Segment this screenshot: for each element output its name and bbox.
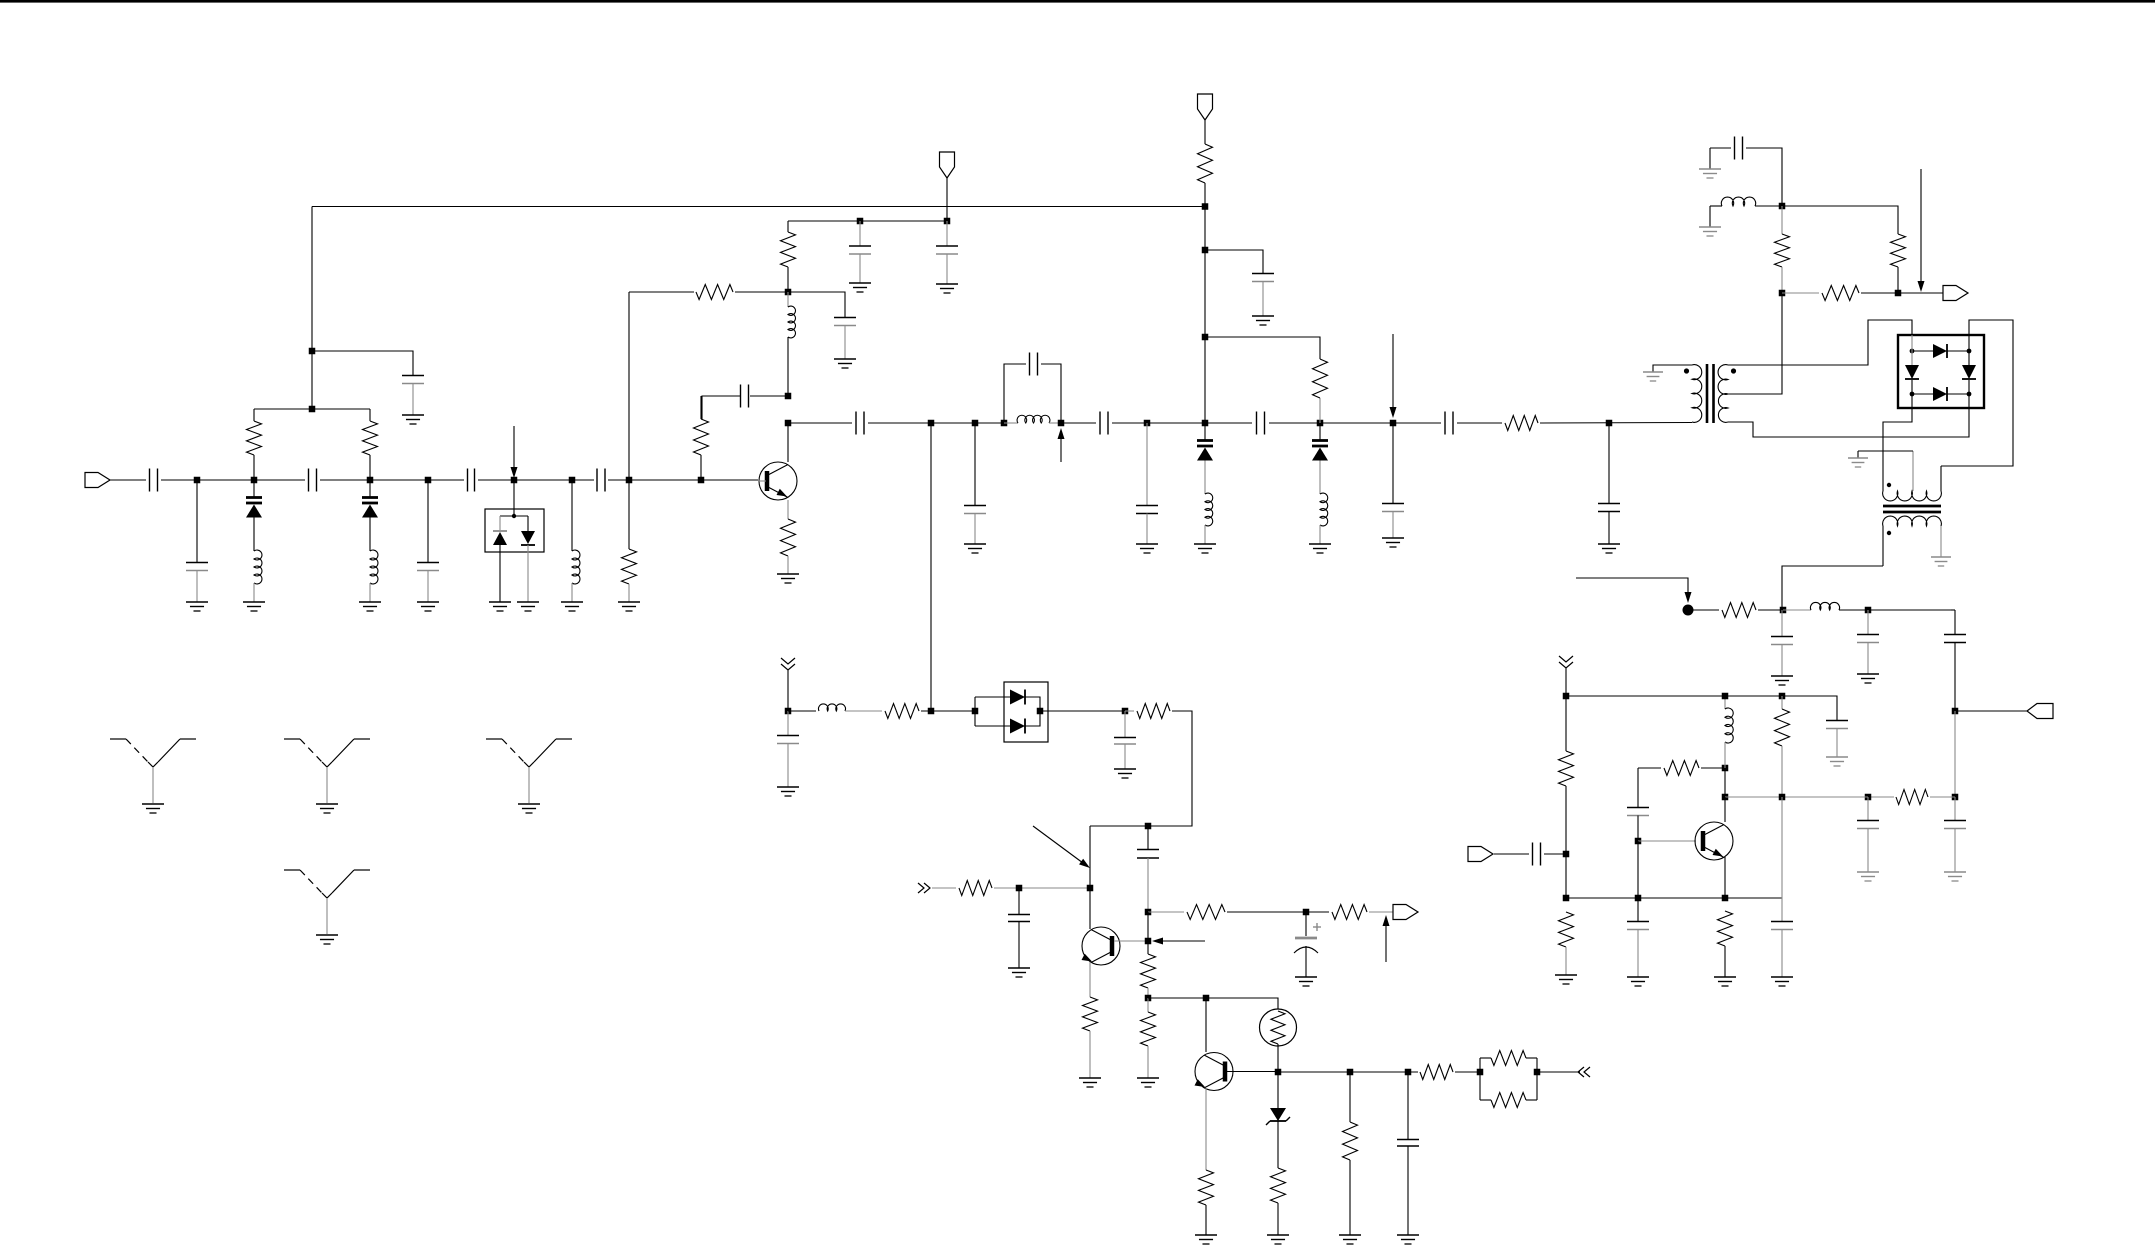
wire [921,710,975,712]
wire [946,178,948,221]
resistor R16 [1559,696,1574,854]
ground [1295,977,1317,986]
wire [1693,609,1719,611]
flag AF out [1393,905,1418,920]
node [1635,838,1642,845]
ground [186,602,208,611]
node [1779,693,1786,700]
terminal big dot [1683,605,1694,616]
diode pair D3 box [485,509,544,552]
ground [359,602,381,611]
node [1122,708,1129,715]
resistor R8 riser [1205,337,1328,423]
thermistor RT1 [1260,1009,1297,1046]
wire [513,480,515,509]
bridge diode left [1905,351,1919,394]
wire corner [1951,609,1955,611]
ground [1944,872,1966,881]
resistor R22 [1137,704,1170,719]
node [1347,1069,1354,1076]
node [1563,851,1570,858]
node [251,477,258,484]
wire [994,887,1090,889]
wire rail2 [1566,897,1782,899]
wire bridge TR lead [1968,335,1970,351]
node [1202,203,1209,210]
node [1563,693,1570,700]
wire bridge TL lead [1911,335,1913,351]
bridge node BL [1910,392,1915,397]
ground [1857,872,1879,881]
transformer T2 core [1883,506,1941,512]
wire [735,291,788,293]
wire long top rail [312,206,1205,208]
wire [1782,206,1898,234]
ground [1079,1078,1101,1087]
resistor R23 [959,881,992,896]
wire secondary bottom [1728,408,1969,437]
transistor Q4 [1695,822,1733,860]
wire [608,479,758,481]
capacitor C4 [597,469,605,492]
wire [1709,206,1711,227]
wire base [1114,940,1148,942]
capacitor C26 to ground [1857,797,1879,872]
transformer T2 top winding [1883,451,1942,501]
wire [868,422,1004,424]
capacitor C22 to ground [1857,610,1879,674]
node [1202,247,1209,254]
wire [1148,911,1184,913]
wire [1204,525,1206,544]
node [944,218,951,225]
node [1952,708,1959,715]
power flag VCC1 [940,152,955,178]
transistor Q2 [1082,927,1120,965]
node [1952,794,1959,801]
wire center tap ground [1858,451,1913,458]
ground [1114,769,1136,778]
ground [936,284,958,293]
resistor R11 [1891,234,1906,293]
node [1563,895,1570,902]
antenna symbol 3 [486,739,572,813]
wire base chain [1147,912,1149,954]
ground [561,602,583,611]
node [309,406,316,413]
transformer T1 core [1707,364,1714,423]
ground [1136,544,1158,553]
ground [1382,538,1404,547]
capacitor C12 [856,412,864,435]
node [1001,420,1008,427]
diode D3b [521,531,535,545]
wire base line [1278,1071,1418,1073]
wire [161,479,305,481]
page top black bar [0,0,2155,3]
wire emitter [1205,1088,1207,1170]
node [1390,420,1397,427]
resistor R32 [1420,1065,1453,1080]
connector from sheet [1559,656,1573,668]
capacitor C32 to ground [777,711,799,787]
wire collector [787,423,789,462]
capacitor C21 [1710,137,1782,207]
ground [1598,544,1620,553]
wire [110,479,146,481]
capacitor C35 series [1137,826,1159,912]
wire [787,556,789,574]
flag IF output [2027,704,2053,719]
wire [1565,668,1567,696]
node [972,708,979,715]
wire [1839,609,1951,611]
antenna symbol 4 [284,870,370,944]
node [511,477,518,484]
polarity dot [1684,368,1689,373]
resistor R25 [1187,905,1225,920]
wire [788,710,816,712]
ground [1252,316,1274,325]
wire vcc rail [788,220,947,222]
capacitor C33 to ground [1114,711,1136,769]
wire feedback [1090,711,1192,826]
capacitor C10 to ground [936,221,958,284]
connector in [918,883,930,893]
capacitor C31 to ground [1771,922,1793,978]
ground [1857,674,1879,683]
wire bias [629,291,694,293]
wire [369,583,371,602]
ground [243,602,265,611]
resistor R13 [1822,286,1859,301]
wire [1269,422,1441,424]
node [1405,1069,1412,1076]
wire [787,670,789,711]
capacitor C20 to ground [1252,274,1274,317]
node [194,477,201,484]
capacitor C27 to ground [1826,721,1848,758]
resistor R28 [1141,998,1156,1078]
node [1477,1069,1484,1076]
capacitor C6 to ground [402,376,424,416]
capacitor C30 to ground [1627,898,1649,977]
node [698,477,705,484]
diode pair D7 bracket [975,697,1010,726]
node [928,420,935,427]
node [1534,1069,1541,1076]
node [1202,420,1209,427]
wire [788,422,852,424]
resistor R14 [1722,603,1756,618]
wire collector [1724,797,1726,822]
wire supply rail [1566,696,1837,720]
ground [1309,544,1331,553]
ground [402,415,424,424]
capacitor C29 [1627,768,1649,841]
node [785,420,792,427]
capacitor C23 to ground [1771,610,1793,676]
ground [834,359,856,368]
varactor D4 [1197,423,1213,494]
wire [1369,911,1393,913]
node [1145,823,1152,830]
wire [1709,148,1711,169]
ground [517,602,539,611]
ground [1699,227,1721,236]
wire [1205,250,1263,273]
node [1722,693,1729,700]
flag TP1 [1943,286,1968,301]
inductor L2 [370,550,378,584]
capacitor C3 [468,469,475,492]
ground [1848,458,1868,467]
capacitor C17 to ground [1382,423,1404,538]
node [1865,607,1872,614]
node [785,708,792,715]
ground [1267,1235,1289,1244]
wire long drop [930,423,932,711]
capacitor C18 [1445,412,1453,435]
arrow annotation [1033,826,1090,868]
resistor R29 [1199,1170,1214,1235]
arrow tuning voltage [511,426,518,478]
resistor R12 [1775,206,1790,293]
wire [1319,525,1321,544]
node [1303,909,1310,916]
wire [478,479,594,481]
ground [1627,977,1649,986]
antenna symbol 2 [284,739,370,813]
capacitor C19 to ground [1598,423,1620,544]
capacitor C14 [1100,412,1108,435]
arrow [1058,428,1065,462]
bridge mixer D6 box [1898,335,1984,408]
wire [320,479,464,481]
resistor R5 [696,285,733,300]
resistor R6 [781,221,796,292]
arrow base [1152,938,1205,945]
varactor D2 [362,480,378,551]
node [1722,765,1729,772]
inductor L8 [1710,197,1782,206]
bridge diode right [1962,351,1976,394]
wire annotation [1576,578,1692,603]
wire [1724,768,1726,797]
ground [1931,557,1951,566]
capacitor C2 [309,469,317,492]
wire [1204,120,1206,144]
node [569,477,576,484]
wire [1455,1071,1480,1073]
arrow AGC [1390,334,1397,418]
node [425,477,432,484]
wire [499,545,501,602]
diode D3a [493,531,507,545]
wire [1544,853,1566,855]
ground [1339,1235,1361,1244]
inductor L4 [788,292,796,396]
node [1779,794,1786,801]
zener D8 [1266,1072,1290,1125]
tank circuit top [1004,353,1061,424]
wire [1781,797,1783,921]
wire [1782,292,1819,294]
polarity dot [1731,368,1736,373]
ground [1555,975,1577,984]
connector from sheet 2 [781,658,795,670]
wire riser [1204,183,1206,423]
transistor Q3 [1195,1053,1233,1091]
wire [1537,1071,1580,1073]
wire [1148,998,1278,1009]
inductor L3 [572,480,580,602]
inductor L5 [1004,415,1061,423]
resistor R26 [1332,905,1367,920]
node [1895,290,1902,297]
node [785,289,792,296]
node [626,477,633,484]
ground [777,574,799,583]
transformer T1 primary [1653,365,1702,423]
wire [788,292,845,317]
bridge node TR [1967,349,1972,354]
wire bridge TR loop [1941,320,2013,466]
wire emitter [1089,962,1091,997]
wire bias rail [254,408,370,410]
connector out [1578,1067,1590,1077]
bridge diode bottom [1912,387,1969,401]
node [1606,420,1613,427]
node [1722,794,1729,801]
resistor R20 [1775,696,1790,797]
capacitor C9 to ground [849,221,871,283]
wire base [1638,840,1696,842]
resistor R31 [1343,1072,1358,1235]
wire bridge BR lead [1968,394,1970,408]
capacitor C34 to ground [1008,888,1030,968]
ground [1699,169,1721,178]
wire base [758,480,766,482]
polarity dot [1887,483,1891,487]
bridge diode top [1912,344,1969,358]
resistor R17 [1559,912,1574,975]
capacitor C7 to ground [417,480,439,602]
node [857,218,864,225]
resistor R2 [363,409,378,480]
node [1779,203,1786,210]
wire emitter [787,500,789,519]
wire [1540,422,1692,425]
wire [1758,609,1783,611]
wire [1861,292,1943,294]
plus sign [1313,923,1321,931]
resistor R9 [1505,416,1538,431]
ground [1643,372,1663,381]
bridge node BR [1967,392,1972,397]
wire [1277,1121,1279,1168]
capacitor C24 series [1944,610,1966,711]
antenna symbol 1 [110,739,196,813]
resistor R4 [694,396,709,480]
flag input 2 [1468,847,1493,862]
capacitor C8 to ground [834,318,856,360]
wire [1227,911,1329,913]
transformer T1 secondary [1718,365,1728,423]
resistor R18 [1638,761,1725,776]
resistor R1 [247,409,262,480]
wire IF out [1782,566,1883,610]
diode pair D7 box [1004,682,1048,742]
wire [1125,710,1134,712]
ground [1195,1235,1217,1244]
parallel resistors R33 R34 [1480,1051,1537,1108]
wire collector [1205,998,1207,1052]
resistor R7 [781,519,796,556]
transistor Q1 [759,462,797,500]
wire to flag [1955,710,2027,712]
diode pair D7 out [1025,697,1122,726]
arrow [1918,169,1925,292]
capacitor C16 [1257,412,1265,435]
inductor L1 [254,550,262,584]
wire secondary tap [1728,293,1782,394]
node [367,477,374,484]
ground [849,283,871,292]
resistor R30 [1271,1168,1286,1235]
inductor L10 [1725,696,1733,768]
wire [1277,1044,1279,1072]
wire [253,583,255,602]
wire emitter [1724,857,1726,898]
node [309,348,316,355]
ground [1008,968,1030,977]
ground [1771,977,1793,986]
diode D7b [1010,719,1025,734]
ground [1714,977,1736,986]
ground [1771,676,1793,685]
wire [845,710,882,712]
node [1865,794,1872,801]
wire [1954,711,1956,797]
wire base [1227,1071,1278,1073]
ground [1397,1235,1419,1244]
node [1145,995,1152,1002]
capacitor C15 to ground [1136,423,1158,544]
node [1779,290,1786,297]
capacitor C1 [150,469,158,492]
capacitor C36 electrolytic [1294,912,1318,977]
wire [1725,796,1782,798]
node [1635,895,1642,902]
capacitor C25 to ground [1944,797,1966,872]
ground [964,544,986,553]
inductor L7 [1320,493,1328,526]
ground [1194,544,1216,553]
resistor R24 [1083,997,1098,1078]
inductor L11 [818,704,845,711]
varactor D1 [246,480,262,551]
wire [1637,841,1639,898]
node [1780,607,1787,614]
capacitor C28 [1533,843,1541,866]
polarity dot [1887,531,1891,535]
diode D7a [1010,690,1025,705]
node [1722,895,1729,902]
node [1275,1069,1282,1076]
node [1145,938,1152,945]
node [928,708,935,715]
